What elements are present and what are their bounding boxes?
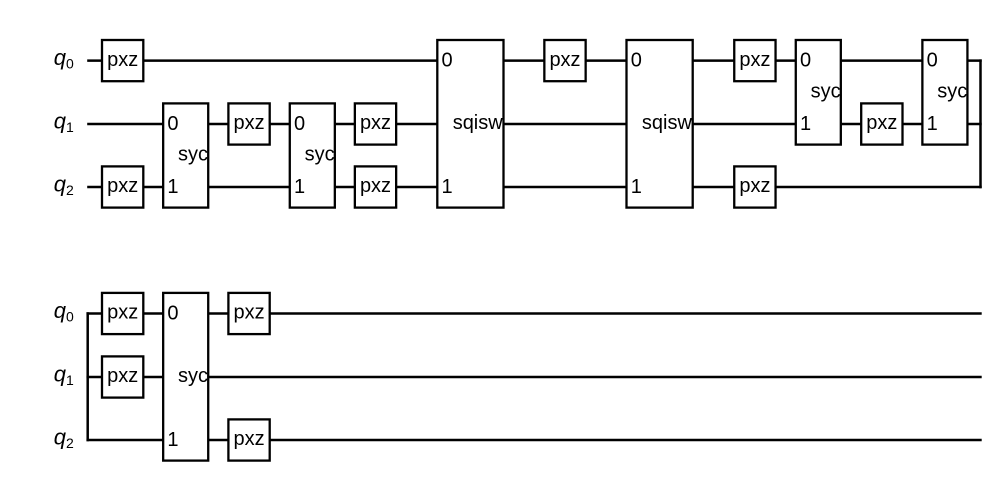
svg-text:0: 0 (167, 113, 178, 135)
svg-text:q2: q2 (54, 424, 74, 451)
svg-text:pxz: pxz (107, 175, 138, 197)
svg-text:0: 0 (442, 50, 453, 72)
svg-text:1: 1 (631, 176, 642, 198)
svg-text:pxz: pxz (233, 112, 264, 134)
svg-text:pxz: pxz (107, 302, 138, 324)
svg-text:pxz: pxz (107, 49, 138, 71)
svg-text:q2: q2 (54, 171, 74, 198)
svg-text:syc: syc (178, 144, 208, 166)
svg-text:1: 1 (294, 176, 305, 198)
svg-text:1: 1 (167, 176, 178, 198)
svg-text:0: 0 (294, 113, 305, 135)
svg-text:pxz: pxz (360, 175, 391, 197)
svg-text:pxz: pxz (549, 49, 580, 71)
svg-text:pxz: pxz (233, 302, 264, 324)
svg-text:q1: q1 (54, 108, 74, 135)
svg-text:0: 0 (167, 302, 178, 324)
svg-text:syc: syc (811, 81, 841, 103)
svg-text:0: 0 (800, 50, 811, 72)
svg-text:q0: q0 (54, 45, 74, 72)
svg-text:sqisw: sqisw (642, 112, 693, 134)
svg-text:1: 1 (442, 176, 453, 198)
svg-text:1: 1 (800, 113, 811, 135)
svg-text:pxz: pxz (739, 175, 770, 197)
svg-text:syc: syc (937, 81, 967, 103)
svg-text:0: 0 (631, 50, 642, 72)
svg-text:q1: q1 (54, 361, 74, 388)
svg-text:pxz: pxz (360, 112, 391, 134)
svg-text:1: 1 (927, 113, 938, 135)
svg-text:0: 0 (927, 50, 938, 72)
svg-text:sqisw: sqisw (453, 112, 504, 134)
svg-text:pxz: pxz (739, 49, 770, 71)
svg-text:pxz: pxz (233, 428, 264, 450)
svg-text:1: 1 (167, 429, 178, 451)
svg-text:syc: syc (178, 365, 208, 387)
svg-text:syc: syc (305, 144, 335, 166)
svg-text:q0: q0 (54, 298, 74, 325)
svg-text:pxz: pxz (107, 365, 138, 387)
svg-text:pxz: pxz (866, 112, 897, 134)
